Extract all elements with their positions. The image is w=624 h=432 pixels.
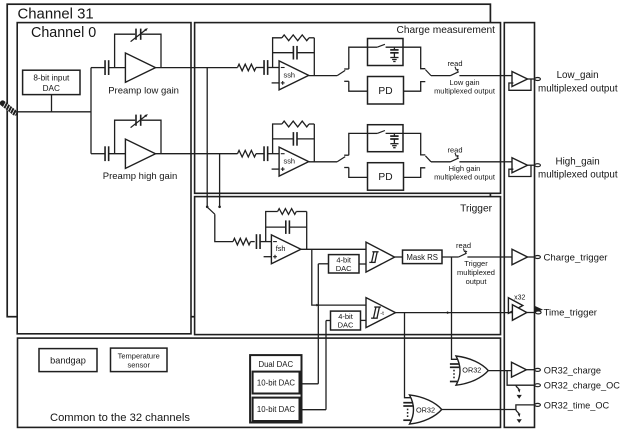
wire ssh output (high gain) [309, 161, 338, 163]
label PD (high gain) [378, 172, 392, 183]
output pin Time_trigger [536, 311, 542, 314]
PD box (low gain) [368, 77, 404, 105]
op-amp preamp high gain [125, 139, 155, 168]
resistor fast shaper input [233, 238, 251, 245]
label OR32 (charge) [462, 366, 481, 375]
wire buffer output (Low_gain) [528, 78, 535, 80]
label High_gain multiplexed output [538, 156, 618, 180]
wire tap to OR32_charge_OC [507, 371, 535, 386]
wire 10-bit DAC 1 output [300, 383, 319, 385]
wire resistor to cap (high gain) [256, 153, 264, 155]
resistor slow shaper input (high gain) [238, 150, 256, 157]
wire time trigger down to OR32 [405, 313, 411, 398]
outer box Channel 31 [7, 4, 490, 317]
bandgap box [39, 349, 97, 372]
svg-text:High_gain: High_gain [556, 156, 600, 167]
label Time_trigger [544, 308, 598, 319]
hysteresis symbol discriminator 1 [369, 252, 378, 263]
svg-text:8-bit input: 8-bit input [33, 73, 70, 82]
buffer feedback loop (High_gain) [509, 165, 531, 176]
box Trigger [195, 197, 501, 335]
label Channel 0 [31, 25, 96, 41]
wire OR32_charge buffer output [526, 369, 534, 371]
op-amp output buffer (High_gain) [512, 158, 528, 173]
op-amp preamp low gain [125, 53, 155, 82]
wire ssh feedback cap branch (low gain) [273, 52, 315, 54]
label x32 [514, 295, 525, 302]
open-collector symbol (time) [516, 410, 522, 424]
op-amp fast shaper fsh [271, 235, 301, 264]
box Common to the 32 channels [18, 338, 501, 427]
wire fsh non-inverting stub [264, 256, 272, 258]
svg-text:Channel 31: Channel 31 [18, 7, 94, 23]
label read (high gain) [447, 145, 462, 154]
wire T&H cap node (high gain) [386, 132, 403, 134]
wire to output buffer (Low_gain) [501, 75, 513, 77]
label ssh (low gain) [284, 70, 296, 79]
label Preamp high gain [103, 171, 177, 182]
capacitor slow shaper input (low gain) [264, 60, 268, 75]
wire 4-bit DAC 1 to discriminator [359, 263, 366, 265]
hysteresis symbol discriminator 2 [371, 307, 384, 318]
Mask RS box [403, 250, 443, 264]
label 4-bit DAC 2 [338, 312, 354, 330]
switch split to T&H / PD (high gain) [337, 133, 367, 177]
svg-text:Trigger: Trigger [464, 259, 488, 268]
output pin Charge_trigger [535, 256, 541, 259]
output pin OR32_charge [535, 368, 541, 371]
svg-text:ssh: ssh [284, 157, 296, 166]
label fsh [276, 244, 286, 253]
capacitor ssh feedback (low gain) [293, 46, 297, 60]
ssh input polarity marks (high gain) [281, 154, 285, 171]
switch inside T&H box (high gain) [377, 131, 385, 134]
Dual DAC box [250, 355, 301, 422]
svg-text:multiplexed output: multiplexed output [434, 172, 496, 181]
label 4-bit DAC 1 [336, 255, 352, 273]
wire ssh feedback branch (high gain) [273, 124, 315, 162]
read arrow (trigger) [463, 249, 467, 254]
output pin (Low_gain) [535, 78, 541, 81]
wire cap to fsh op-amp [260, 241, 271, 243]
hold capacitor to ground (high gain) [390, 133, 398, 143]
wire preamp high output [156, 153, 238, 155]
op-amp Charge_trigger buffer [512, 249, 528, 265]
variable capacitor preamp high feedback [131, 114, 148, 128]
capacitor high-gain input [105, 146, 109, 161]
box Charge measurement [195, 23, 501, 194]
capacitor fsh feedback [286, 220, 290, 234]
wire to low-gain input cap [91, 67, 105, 69]
OR32 gate (charge) [456, 356, 488, 385]
wire PD to merge switch (high gain) [404, 168, 426, 178]
svg-text:multiplexed output: multiplexed output [538, 83, 618, 94]
svg-text:PD: PD [378, 172, 392, 183]
wire Mask RS to read switch [442, 256, 459, 258]
svg-text:read: read [456, 241, 471, 250]
wire fsh output to discriminator [301, 248, 366, 250]
wire Time_trigger output [527, 312, 535, 314]
svg-text:Common to the 32 channels: Common to the 32 channels [50, 412, 190, 424]
wire cap to ssh op-amp (high gain) [268, 153, 279, 155]
output pin (High_gain) [535, 164, 541, 167]
switch merge to output (high gain) [425, 156, 450, 162]
wire input splitter vertical [90, 68, 92, 154]
op-amp slow shaper ssh (high gain) [279, 147, 309, 176]
svg-text:-t: -t [380, 311, 384, 317]
wire resistor to fsh cap [251, 241, 255, 243]
discriminator time trigger [366, 298, 396, 328]
output pin OR32_charge_OC [535, 384, 541, 387]
capacitor low-gain input [105, 60, 109, 75]
switch read (high gain) [451, 158, 501, 162]
wire cap to preamp low [109, 67, 126, 69]
label trigger multiplexed output [457, 259, 495, 286]
4-bit DAC box (charge trigger) [329, 255, 360, 273]
svg-text:OR32_charge_OC: OR32_charge_OC [544, 380, 620, 390]
wire preamp low output [156, 67, 238, 69]
switch inside T&H box (low gain) [377, 44, 385, 47]
input pad [3, 102, 17, 116]
svg-text:Temperature: Temperature [118, 352, 160, 361]
wire cap to preamp high [109, 153, 126, 155]
svg-text:Charge_trigger: Charge_trigger [544, 253, 609, 264]
label 10-bit DAC 2 [257, 405, 296, 414]
box Channel 0 [17, 23, 191, 334]
resistor fsh feedback [278, 209, 297, 215]
label ssh (high gain) [284, 157, 296, 166]
hold capacitor to ground (low gain) [390, 47, 398, 57]
wire into T&H box (low gain) [368, 46, 378, 48]
label Temperature sensor [118, 352, 160, 370]
svg-text:multiplexed: multiplexed [457, 268, 495, 277]
wire DAC to input node [51, 95, 53, 112]
wire to output buffer (High_gain) [501, 161, 513, 163]
wire resistor to cap (low gain) [256, 67, 264, 69]
Temperature sensor box [111, 348, 168, 372]
svg-text:output: output [466, 277, 488, 286]
wire fsh output down to time branch [312, 249, 366, 306]
op-amp Time_trigger buffer front [512, 305, 526, 321]
wire selector common to fast shaper [215, 214, 233, 241]
label Charge measurement [396, 25, 495, 36]
OR32 time gate input dots [407, 409, 409, 419]
read arrow (low gain) [455, 67, 459, 72]
fsh input polarity marks [273, 242, 277, 259]
track-and-hold capacitors box (low gain) [368, 39, 404, 66]
svg-text:OR32_time_OC: OR32_time_OC [544, 400, 610, 410]
svg-text:OR32: OR32 [416, 405, 435, 414]
svg-text:Preamp high gain: Preamp high gain [103, 171, 177, 182]
svg-text:10-bit DAC: 10-bit DAC [257, 378, 296, 387]
label Mask RS [406, 253, 438, 262]
label read (low gain) [447, 59, 462, 68]
wire T&H box to merge switch (low gain) [403, 47, 425, 68]
resistor slow shaper input (low gain) [238, 64, 256, 71]
wire ssh non-inverting stub (low gain) [272, 82, 280, 84]
svg-text:PD: PD [378, 86, 392, 97]
label Dual DAC [258, 360, 293, 369]
wire discriminator 1 to Mask RS [395, 256, 403, 258]
wire into T&H box (high gain) [368, 132, 378, 134]
OR32 gate (time) [410, 395, 442, 424]
box output column [504, 23, 534, 428]
label high gain multiplexed output [434, 164, 496, 181]
OR32 time gate input stubs [403, 403, 413, 421]
wire fsh feedback branch [266, 212, 307, 250]
wire threshold to 4-bit DAC 1 [318, 264, 328, 384]
wire to high-gain input cap [91, 153, 105, 155]
label read (trigger) [456, 241, 471, 250]
ground symbol in T&H box (high gain) [390, 144, 398, 148]
wire 4-bit DAC 2 to discriminator 2 [361, 319, 367, 321]
svg-text:Low_gain: Low_gain [557, 70, 599, 81]
wire preamp low feedback [115, 34, 161, 67]
wire buffer output (High_gain) [528, 164, 535, 166]
svg-text:Mask RS: Mask RS [406, 253, 438, 262]
wire PD to merge switch (low gain) [404, 82, 426, 92]
ssh input polarity marks (low gain) [281, 68, 285, 85]
svg-text:read: read [447, 59, 462, 68]
wire 10-bit DAC 2 output [300, 409, 327, 411]
op-amp OR32_charge buffer [512, 362, 527, 377]
4-bit DAC box (time trigger) [331, 311, 361, 330]
op-amp output buffer (Low_gain) [512, 72, 528, 87]
wire discriminator 2 output [396, 311, 513, 314]
svg-text:read: read [447, 145, 462, 154]
svg-text:fsh: fsh [276, 244, 286, 253]
wire to OR32_time_OC pin [516, 405, 535, 410]
label Charge_trigger [544, 253, 609, 264]
10-bit DAC box 2 [253, 398, 300, 421]
label OR32_charge_OC [544, 380, 620, 390]
label 8-bit input DAC [33, 73, 70, 93]
label Trigger [460, 203, 492, 214]
8-bit input DAC box [23, 70, 80, 94]
wire OR32 charge output [488, 370, 511, 372]
svg-text:multiplexed output: multiplexed output [434, 86, 496, 95]
label Low_gain multiplexed output [538, 70, 618, 94]
switch read (low gain) [451, 72, 501, 76]
svg-text:10-bit DAC: 10-bit DAC [257, 405, 296, 414]
svg-text:OR32_charge: OR32_charge [544, 366, 601, 376]
wire charge trigger down to OR32 [452, 257, 458, 359]
svg-text:Channel 0: Channel 0 [31, 25, 96, 41]
wire threshold to 4-bit DAC 2 [326, 321, 331, 410]
PD box (high gain) [368, 163, 404, 191]
label Channel 31 [18, 7, 94, 23]
wire ssh feedback branch (low gain) [273, 38, 315, 76]
switch trigger source select [208, 207, 215, 214]
OR32 charge gate input dots [453, 370, 455, 380]
svg-text:x32: x32 [514, 295, 525, 302]
OR32 charge gate input stubs [450, 364, 459, 382]
svg-text:bandgap: bandgap [50, 356, 86, 366]
op-amp slow shaper ssh (low gain) [279, 61, 309, 90]
label 10-bit DAC 1 [257, 378, 296, 387]
label bandgap [50, 356, 86, 366]
resistor ssh feedback (high gain) [282, 121, 309, 127]
label Preamp low gain [108, 86, 179, 97]
wire preamp high feedback [115, 120, 161, 154]
svg-text:sensor: sensor [127, 360, 150, 369]
wire ssh non-inverting stub (high gain) [272, 168, 280, 170]
label Common to the 32 channels [50, 412, 190, 424]
svg-text:multiplexed output: multiplexed output [538, 170, 618, 181]
svg-text:Dual DAC: Dual DAC [258, 360, 293, 369]
wire ssh output (low gain) [309, 75, 338, 77]
wire tap high-gain to trigger switch [218, 154, 221, 208]
read arrow (high gain) [455, 153, 459, 158]
svg-text:OR32: OR32 [462, 366, 481, 375]
wire to Charge_trigger buffer [501, 256, 513, 258]
wire Charge_trigger buffer output [528, 256, 535, 258]
capacitor ssh feedback (high gain) [293, 132, 297, 146]
wire fsh feedback cap branch [266, 226, 307, 228]
wire ssh feedback cap branch (high gain) [273, 138, 315, 140]
wire T&H cap node (low gain) [386, 46, 403, 48]
discriminator charge trigger [366, 242, 395, 272]
buffer feedback loop (Low_gain) [509, 79, 531, 90]
svg-text:Time_trigger: Time_trigger [544, 308, 598, 319]
wire OR32 time output [442, 409, 516, 411]
label OR32 (time) [416, 405, 435, 414]
capacitor slow shaper input (high gain) [264, 146, 268, 161]
svg-text:DAC: DAC [338, 321, 354, 330]
svg-text:Charge measurement: Charge measurement [396, 25, 495, 36]
resistor ssh feedback (low gain) [282, 35, 309, 41]
label PD (low gain) [378, 86, 392, 97]
label OR32_time_OC [544, 400, 610, 410]
svg-text:ssh: ssh [284, 70, 296, 79]
10-bit DAC box 1 [253, 372, 300, 394]
op-amp Time_trigger buffer back [508, 298, 522, 314]
open-collector symbol (charge) [516, 385, 522, 399]
label OR32_charge [544, 366, 601, 376]
switch split to T&H / PD (low gain) [337, 47, 367, 91]
switch merge to output (low gain) [425, 70, 450, 76]
variable capacitor preamp low feedback [131, 28, 148, 41]
ground symbol in T&H box (low gain) [390, 58, 398, 62]
wire cap to ssh op-amp (low gain) [268, 67, 279, 69]
label low gain multiplexed output [434, 78, 496, 96]
arrow Time_trigger output [535, 306, 543, 313]
wire tap low-gain to trigger switch [206, 68, 209, 209]
wire T&H box to merge switch (high gain) [403, 133, 425, 155]
wire input pad to splitter node [15, 111, 91, 113]
svg-text:Trigger: Trigger [460, 203, 492, 214]
output pin OR32_time_OC [535, 403, 541, 406]
svg-text:Preamp low gain: Preamp low gain [108, 86, 179, 97]
svg-text:DAC: DAC [43, 84, 60, 93]
svg-text:DAC: DAC [336, 264, 352, 273]
switch read (trigger) [459, 253, 501, 257]
capacitor fast shaper input [256, 234, 260, 249]
track-and-hold capacitors box (high gain) [368, 125, 404, 152]
